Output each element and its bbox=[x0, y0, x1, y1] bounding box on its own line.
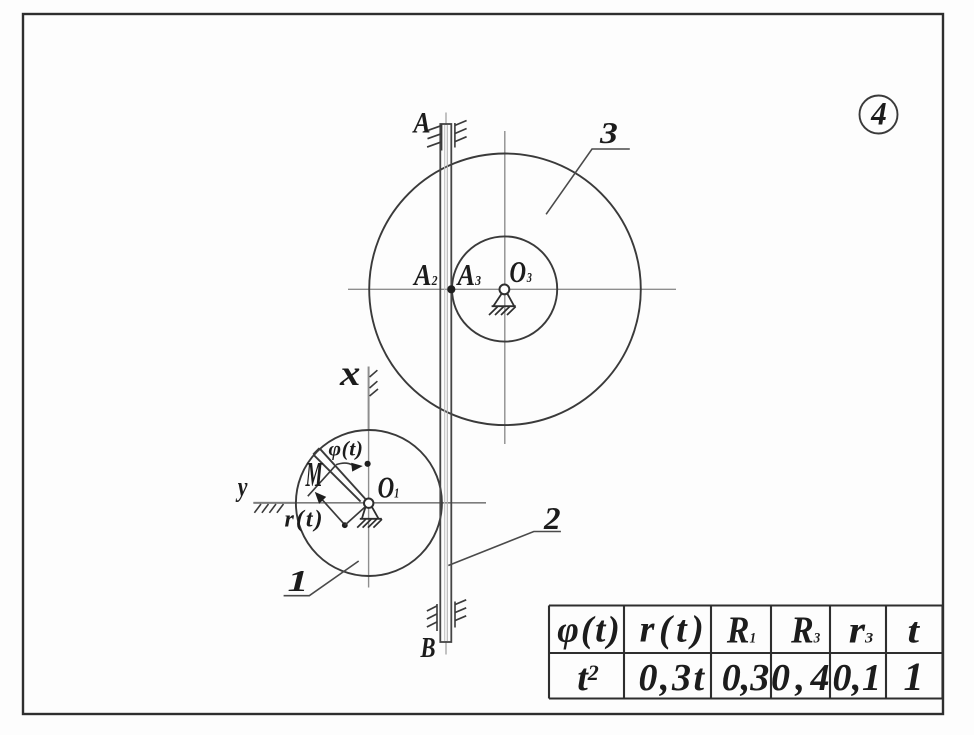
O1 support base bbox=[360, 518, 382, 520]
table column line 5 bbox=[885, 606, 887, 699]
svg-text:M: M bbox=[305, 456, 323, 494]
O1 pivot circle bbox=[364, 499, 373, 508]
bottom guide left hatches bbox=[427, 606, 437, 611]
O1 pivot support legs bbox=[362, 507, 366, 519]
line vertex dot to O1 bbox=[345, 507, 365, 525]
table right edge bbox=[941, 606, 943, 699]
svg-text:0,4: 0,4 bbox=[771, 657, 835, 699]
r(t) arrow shaft bbox=[319, 496, 345, 525]
x axis hatches bbox=[370, 370, 378, 377]
rack 2 bottom centerline stub bbox=[445, 641, 447, 655]
leader for label 3 bbox=[546, 149, 630, 214]
y axis hatches bbox=[254, 504, 261, 513]
y axis dark segment bbox=[253, 502, 297, 504]
svg-text:φ(t): φ(t) bbox=[557, 610, 622, 651]
O3 pivot support legs bbox=[494, 294, 502, 306]
wheel 3 horizontal centerline bbox=[348, 288, 676, 290]
leader for label 2 bbox=[448, 532, 561, 566]
svg-text:x: x bbox=[339, 354, 360, 393]
phi(t) arc bbox=[336, 463, 353, 465]
top guide right hatches bbox=[455, 121, 467, 126]
table column line 3 bbox=[770, 606, 772, 699]
phi(t) arrowhead bbox=[351, 463, 363, 472]
variant circle 4 bbox=[860, 96, 898, 134]
contact point A2=A3 dot bbox=[447, 285, 455, 293]
bottom guide left bar bbox=[436, 604, 438, 631]
wheel 1 circle bbox=[296, 430, 442, 576]
svg-text:r(t): r(t) bbox=[640, 609, 709, 651]
wheel 3 inner circle (radius r3) bbox=[452, 236, 557, 341]
table left edge bbox=[548, 606, 550, 699]
r(t) vertex dot bbox=[342, 522, 348, 528]
svg-text:φ(t): φ(t) bbox=[329, 437, 364, 461]
svg-text:3: 3 bbox=[599, 116, 618, 150]
O3 support hatches bbox=[489, 307, 498, 315]
table column line 2 bbox=[710, 606, 712, 699]
slot end cap bbox=[313, 448, 319, 454]
phi(t) axis dot bbox=[365, 461, 371, 467]
slot lower edge bbox=[313, 454, 360, 501]
top guide right bar bbox=[454, 123, 456, 148]
bottom guide right bar bbox=[454, 602, 456, 628]
top guide left bar bbox=[441, 124, 443, 151]
table column line 1 bbox=[623, 606, 625, 699]
rack 2 top centerline stub bbox=[445, 113, 447, 126]
O1 support hatches bbox=[357, 519, 366, 527]
phi(t) tail line bbox=[308, 465, 336, 496]
rack 2 inner light lines bbox=[444, 125, 446, 641]
svg-text:1: 1 bbox=[904, 654, 924, 699]
svg-text:r(t): r(t) bbox=[285, 507, 325, 533]
table grid bbox=[549, 606, 943, 699]
wheel 3 outer circle bbox=[369, 153, 641, 425]
wheel 3 vertical centerline bbox=[504, 131, 506, 444]
svg-text:A: A bbox=[412, 106, 431, 139]
table column line 4 bbox=[829, 606, 831, 699]
svg-text:y: y bbox=[235, 473, 248, 503]
O3 pivot circle bbox=[500, 285, 510, 295]
svg-text:B: B bbox=[420, 631, 436, 663]
leader for label 1 bbox=[284, 561, 359, 596]
x axis dark segment bbox=[368, 367, 370, 432]
svg-text:t: t bbox=[907, 611, 920, 651]
svg-text:0,3t: 0,3t bbox=[638, 657, 706, 699]
table bottom line bbox=[549, 697, 943, 699]
rack 2 body rectangle bbox=[440, 124, 451, 642]
svg-text:1: 1 bbox=[288, 563, 309, 598]
wheel 1 y-axis (horizontal centerline) bbox=[253, 502, 486, 504]
svg-text:0,1: 0,1 bbox=[833, 657, 882, 699]
slot upper edge bbox=[319, 448, 366, 500]
svg-text:0,3: 0,3 bbox=[722, 657, 770, 699]
O3 support base bbox=[492, 305, 516, 307]
top guide left hatches bbox=[428, 126, 442, 131]
table middle line bbox=[549, 652, 943, 654]
svg-text:2: 2 bbox=[543, 501, 561, 536]
svg-text:4: 4 bbox=[870, 95, 887, 132]
r(t) arrowhead bbox=[315, 492, 326, 504]
bottom guide right hatches bbox=[455, 600, 466, 605]
wheel 1 x-axis (vertical centerline) bbox=[368, 367, 370, 588]
table top line bbox=[549, 604, 943, 606]
